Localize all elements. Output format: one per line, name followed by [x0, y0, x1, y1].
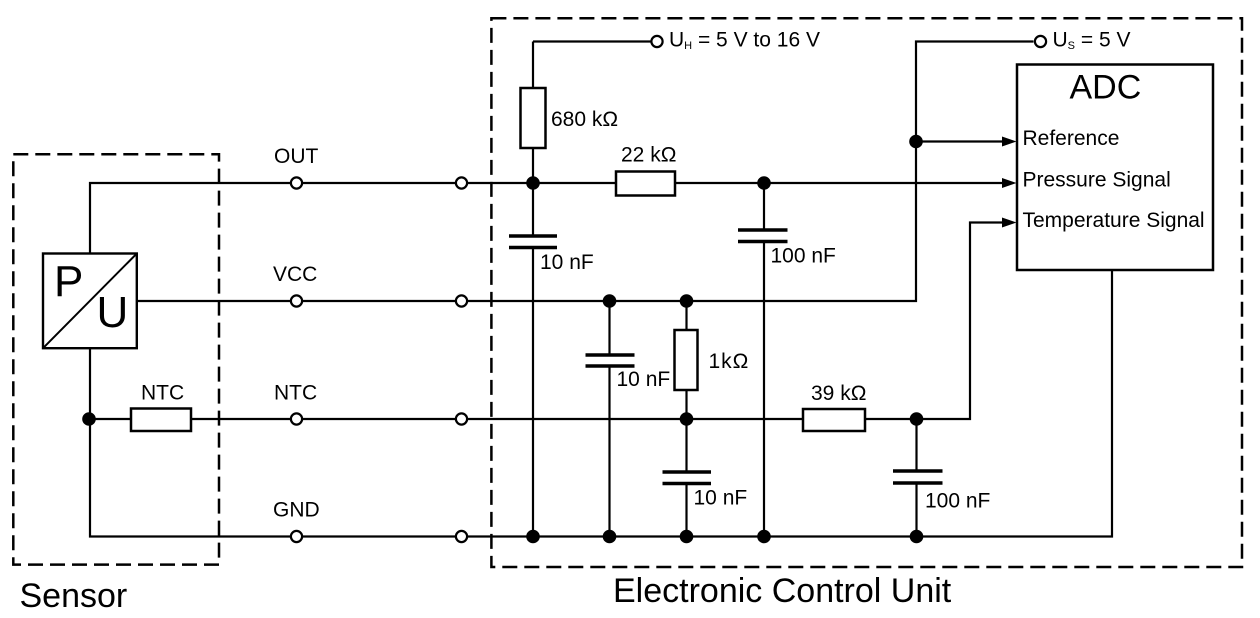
svg-text:P: P	[54, 257, 83, 306]
svg-text:680 kΩ: 680 kΩ	[551, 108, 618, 131]
terminal circle OUT left	[291, 177, 302, 188]
capacitor C4 100nF plates	[738, 230, 788, 242]
terminal circle US	[1035, 36, 1046, 47]
terminal circle VCC right	[456, 295, 467, 306]
junction dot 1k/NTC line	[680, 412, 694, 426]
wire branch x=609.5 C2 bottom to GND	[608, 366, 610, 537]
terminal circle OUT right	[456, 177, 467, 188]
wire Reference branch from Us line into ADC	[916, 140, 1004, 142]
wire branch x=916.5 C5 bottom to GND	[915, 483, 917, 537]
svg-text:Reference: Reference	[1023, 127, 1120, 150]
capacitor C1 10nF plates	[509, 236, 557, 248]
wire branch x=609.5 VCC to C2 top	[608, 301, 610, 355]
svg-text:10 nF: 10 nF	[540, 251, 594, 274]
svg-text:Pressure Signal: Pressure Signal	[1023, 169, 1171, 192]
svg-text:100 nF: 100 nF	[771, 245, 836, 268]
resistor R 22k	[616, 172, 675, 196]
ECU enclosure dashed box	[491, 18, 1242, 567]
arrowhead into ADC Reference	[1002, 137, 1017, 147]
terminal circle GND left	[291, 531, 302, 542]
resistor R 39k	[803, 409, 865, 431]
svg-text:GND: GND	[273, 499, 320, 522]
svg-text:UH = 5 V to 16 V: UH = 5 V to 16 V	[669, 29, 820, 53]
svg-text:Sensor: Sensor	[20, 577, 128, 615]
terminal circle GND right	[456, 531, 467, 542]
junction dot GND/x609	[603, 530, 617, 544]
svg-text:Temperature Signal: Temperature Signal	[1023, 209, 1205, 232]
wire UH branch: terminal to 680k top	[533, 42, 651, 237]
terminal circle NTC left	[291, 413, 302, 424]
svg-text:10 nF: 10 nF	[694, 487, 748, 510]
wire branch x=686.5 VCC through 1k to NTC line then to C3 top	[685, 301, 687, 472]
arrowhead into ADC Temperature Signal	[1002, 218, 1017, 228]
wire branch x=916.5 NTC node to C5 top	[915, 419, 917, 471]
terminal circle NTC right	[456, 413, 467, 424]
wire OUT net: from P/U top to ADC Pressure input	[90, 183, 1004, 253]
junction dot 39k/C5	[910, 412, 924, 426]
svg-text:U: U	[97, 288, 129, 337]
terminal circle VCC left	[291, 295, 302, 306]
svg-text:NTC: NTC	[141, 382, 184, 405]
svg-text:NTC: NTC	[274, 382, 317, 405]
svg-text:39 kΩ: 39 kΩ	[811, 382, 866, 405]
wire branch x=686.5 C3 bottom to GND	[685, 484, 687, 537]
capacitor C5 100nF plates	[893, 471, 943, 483]
terminal circle UH	[651, 36, 662, 47]
svg-text:Electronic Control Unit: Electronic Control Unit	[613, 572, 952, 610]
junction dot VCC/1k	[680, 294, 694, 308]
svg-text:US = 5 V: US = 5 V	[1053, 29, 1131, 53]
svg-text:22 kΩ: 22 kΩ	[621, 144, 676, 167]
arrowhead into ADC Pressure Signal	[1002, 178, 1017, 188]
svg-text:1kΩ: 1kΩ	[709, 350, 750, 373]
svg-text:OUT: OUT	[274, 145, 319, 168]
svg-text:VCC: VCC	[273, 263, 317, 286]
junction dot Us/Reference	[909, 135, 923, 149]
junction dot GND/x686	[680, 530, 694, 544]
junction dot GND/x764	[757, 530, 771, 544]
svg-text:ADC: ADC	[1070, 69, 1142, 107]
junction dot GND/x533	[526, 530, 540, 544]
wire NTC net: from sensor junction to node after 39k	[89, 418, 917, 420]
svg-text:100 nF: 100 nF	[925, 490, 990, 513]
wire GND net: sensor vertical and bottom bus up to ADC bottom	[90, 270, 1112, 537]
junction dot GND/C5	[910, 530, 924, 544]
junction dot VCC/C2	[603, 294, 617, 308]
resistor R 680k	[521, 88, 546, 148]
wire VCC net: from P/U right to x=916 then up to Us terminal	[137, 42, 1034, 302]
resistor NTC (in sensor)	[131, 409, 191, 432]
junction dot OUT/680k	[526, 176, 540, 190]
resistor R 1k	[675, 330, 698, 390]
ADC block	[1017, 65, 1213, 271]
P/U sensor block	[43, 254, 137, 349]
capacitor C2 10nF plates	[586, 355, 635, 366]
svg-text:10 nF: 10 nF	[617, 368, 671, 391]
sensor enclosure dashed box	[13, 154, 219, 564]
wire branch x=533 below C1 down to GND	[532, 248, 534, 537]
capacitor C3 10nF plates	[663, 472, 712, 484]
wire branch x=764 OUT node through C4 position down to GND	[763, 183, 765, 537]
junction dot sensor NTC	[82, 412, 96, 426]
junction dot OUT/C4	[757, 176, 771, 190]
wire Temperature branch: node to ADC Temperature input	[917, 223, 1005, 420]
